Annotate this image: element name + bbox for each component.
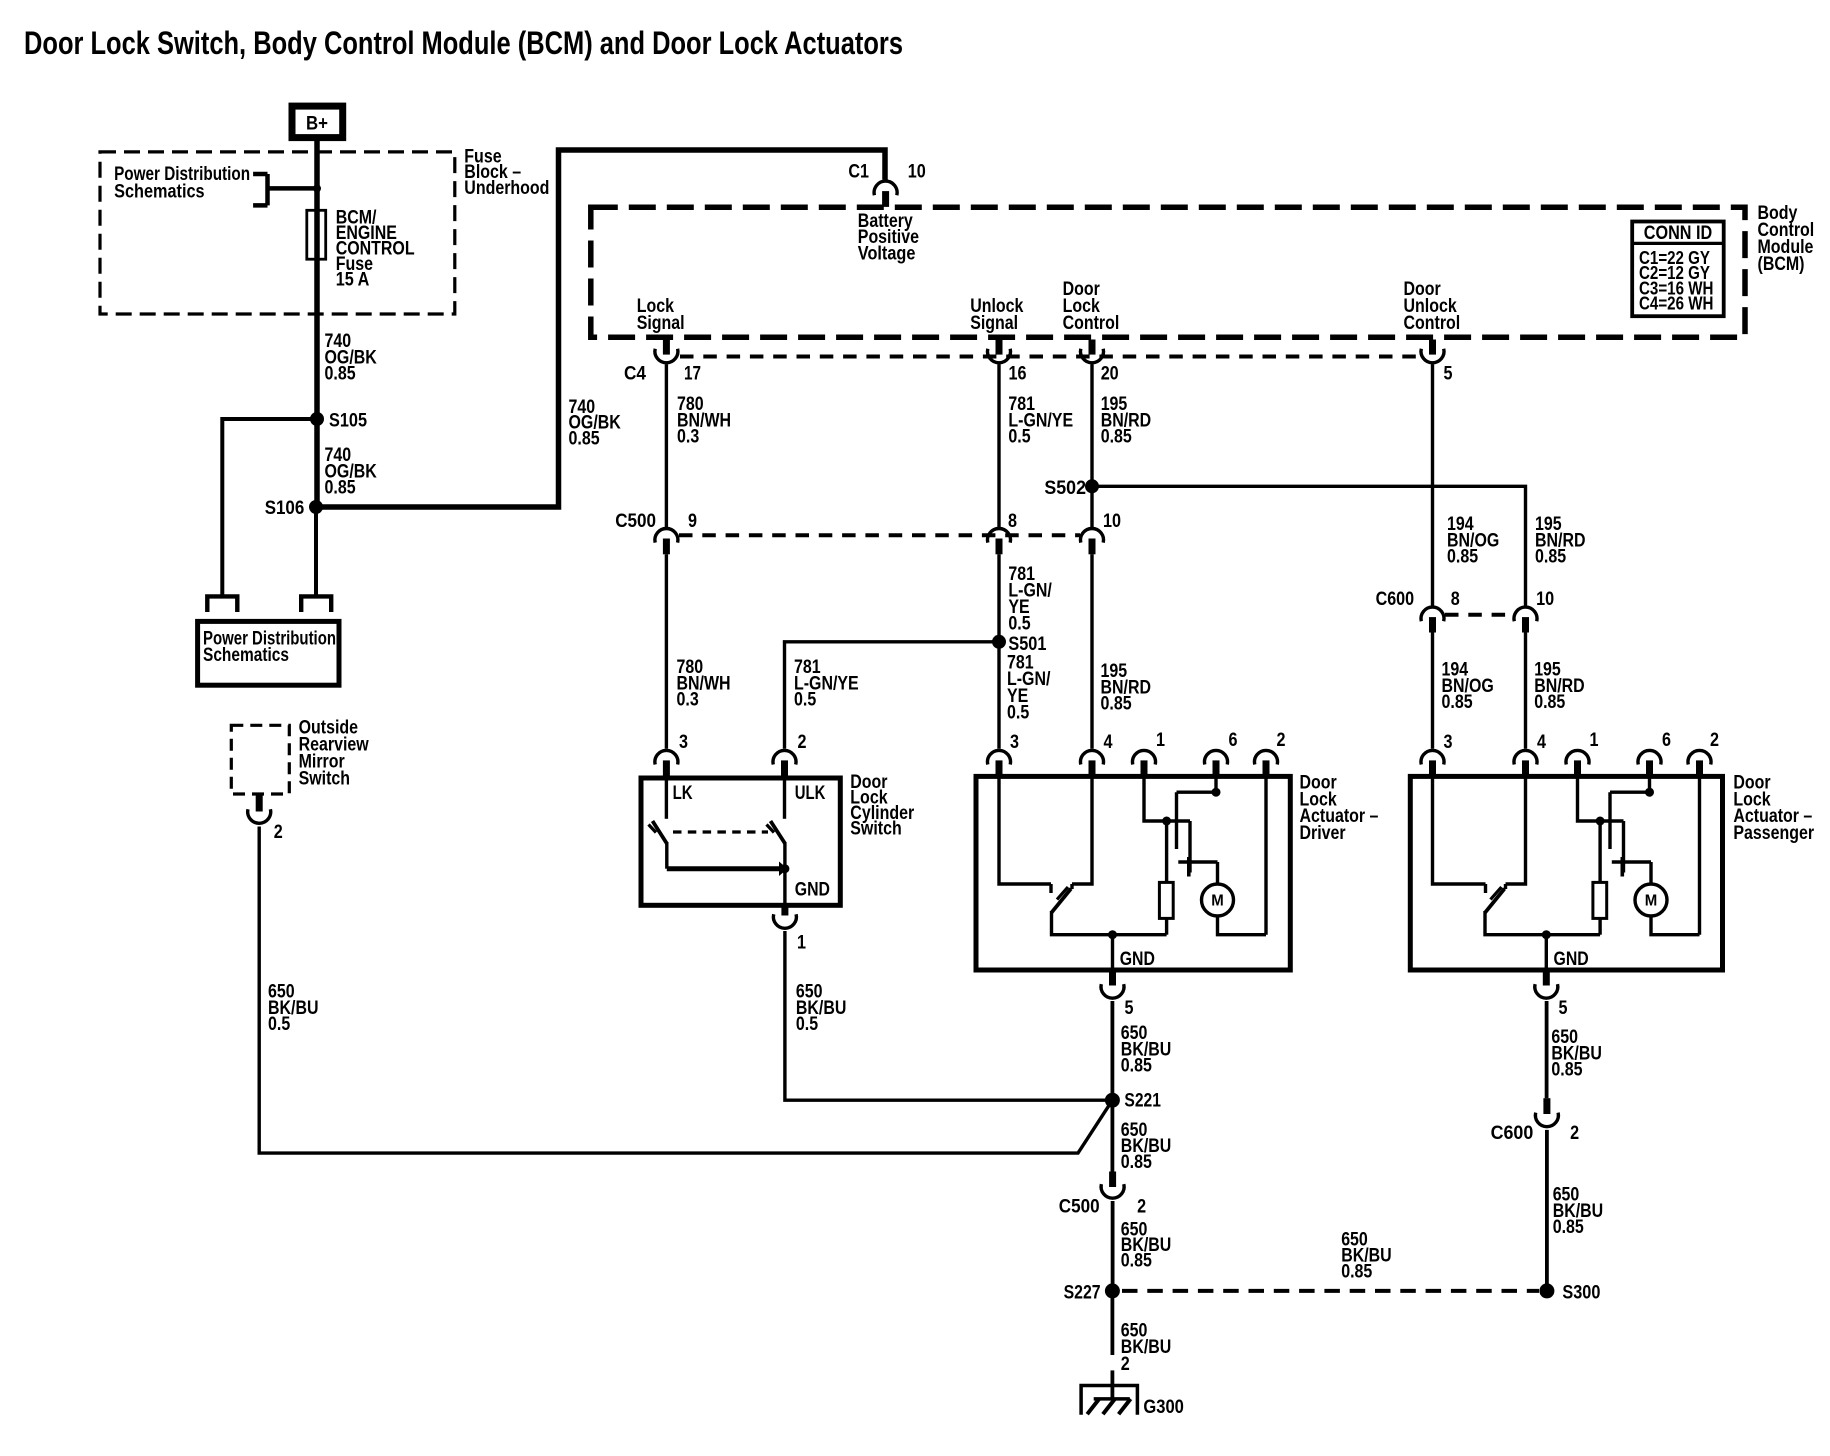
connector C1 pin 10 at BCM (874, 181, 897, 195)
svg-text:8: 8 (1008, 511, 1017, 532)
svg-text:Voltage: Voltage (858, 243, 916, 264)
wire: door unlock control BCM pin5 to C600 pin 8 (1431, 364, 1434, 605)
svg-text:0.85: 0.85 (1121, 1056, 1152, 1077)
wire: LK blade to common bar (665, 842, 668, 869)
connector C600 pin 10 (1514, 607, 1537, 621)
battery positive terminal B+ (292, 106, 343, 138)
connector: mirror switch pin 2 (256, 794, 263, 812)
svg-text:20: 20 (1101, 364, 1119, 385)
connector C500 pin 2 (1109, 1172, 1116, 1188)
svg-text:Passenger: Passenger (1733, 823, 1814, 844)
svg-text:ULK: ULK (795, 783, 826, 804)
wire: lock signal C500-9 to cylinder switch LK pin 3 (665, 554, 668, 749)
svg-text:Schematics: Schematics (114, 182, 205, 203)
passenger actuator: motor to pin 2 (1651, 776, 1700, 934)
connector C4 pin 16 (unlock signal) (996, 340, 1003, 355)
svg-text:3: 3 (1010, 732, 1019, 753)
svg-text:Control: Control (1063, 313, 1120, 334)
passenger actuator: ground junction dot (1542, 930, 1551, 939)
svg-text:C600: C600 (1376, 589, 1415, 610)
svg-text:GND: GND (795, 880, 830, 901)
svg-text:5: 5 (1559, 998, 1568, 1019)
fuse block underhood dashed box (100, 152, 455, 314)
svg-text:1: 1 (797, 933, 806, 954)
terminal fork at power distribution (left) (207, 596, 237, 612)
wire: driver actuator ground to S221 (1111, 1001, 1115, 1100)
junction dot on B+ feed at bracket (313, 184, 321, 192)
svg-text:4: 4 (1104, 732, 1113, 753)
connector C500 dashed gang line (679, 533, 1080, 537)
wire: unlock signal BCM pin16 to C500 pin 8 (997, 364, 1000, 527)
svg-text:0.85: 0.85 (1553, 1217, 1584, 1238)
connector: passenger actuator pin 6 (1638, 750, 1661, 764)
splice S105 (310, 412, 324, 426)
svg-text:C500: C500 (1059, 1197, 1100, 1218)
svg-text:0.85: 0.85 (325, 364, 356, 385)
svg-text:1: 1 (1590, 730, 1599, 751)
wire: C600-10 to actuator passenger pin 4 (1524, 633, 1527, 749)
wire: S227 to S300 (dashed) (1122, 1289, 1539, 1293)
svg-text:C4: C4 (624, 364, 646, 385)
svg-text:15 A: 15 A (336, 270, 370, 291)
splice S227 (1105, 1283, 1120, 1298)
driver actuator: pin 6 lead (1214, 776, 1217, 792)
motor M (driver) (1202, 884, 1234, 916)
connector: driver actuator GND pin 5 (1109, 970, 1116, 986)
connector C500 pin 8 (988, 528, 1011, 542)
wire: S105 branch to power distribution schematics (222, 419, 317, 596)
svg-text:Schematics: Schematics (203, 645, 289, 666)
svg-text:0.85: 0.85 (1341, 1261, 1372, 1282)
splice S300 (1539, 1283, 1554, 1298)
wire: unlock signal C500-8 to actuator driver pin 3 via S501 (997, 554, 1000, 749)
svg-text:GND: GND (1120, 949, 1155, 970)
svg-text:0.5: 0.5 (1008, 614, 1031, 635)
svg-text:S106: S106 (265, 498, 305, 519)
connector C600 pin 8 (1421, 607, 1444, 621)
ULK switch blade (771, 821, 786, 844)
wire: switch common bar to GND (667, 866, 779, 871)
svg-text:0.85: 0.85 (1535, 547, 1566, 568)
door lock actuator passenger box (1410, 776, 1722, 970)
svg-text:S227: S227 (1064, 1282, 1101, 1303)
connector: driver actuator pin 4 (1081, 750, 1104, 764)
svg-text:0.3: 0.3 (677, 427, 699, 448)
svg-text:2: 2 (274, 822, 283, 843)
driver actuator: blade to ground bar (1052, 911, 1167, 935)
svg-text:10: 10 (908, 162, 926, 183)
junction dot at GND bar (780, 864, 789, 873)
svg-text:Underhood: Underhood (464, 178, 549, 199)
svg-text:16: 16 (1009, 364, 1027, 385)
connector C4 dashed gang line (680, 355, 1420, 359)
wire: ULK/GND vertical (783, 842, 786, 906)
svg-text:3: 3 (679, 732, 688, 753)
passenger actuator: blade to ground bar (1485, 911, 1600, 935)
wire: S227 to ground G300 (1111, 1291, 1115, 1355)
connector: passenger actuator pin 2 (1688, 750, 1711, 764)
svg-text:0.5: 0.5 (268, 1014, 291, 1035)
wire: C600-2 to S300 (1545, 1130, 1549, 1291)
svg-text:G300: G300 (1143, 1397, 1184, 1418)
terminal fork at power distribution (right) (301, 596, 331, 612)
svg-text:LK: LK (673, 783, 693, 804)
svg-text:Signal: Signal (637, 313, 685, 334)
connector: passenger actuator pin 4 (1514, 750, 1537, 764)
splice S221 (1105, 1093, 1120, 1108)
off-page bracket to power distribution schematics (253, 174, 317, 205)
connector: passenger actuator GND pin 5 (1543, 970, 1550, 986)
connector C4 pin 20 (door lock control) (1089, 340, 1096, 355)
wire: ULK contact lead (783, 778, 786, 819)
splice S501 (992, 635, 1006, 649)
wire: C500-2 to S227 (1111, 1201, 1115, 1291)
connector C600 pin 2 (1543, 1098, 1550, 1114)
splice S502 (1085, 479, 1099, 493)
svg-text:17: 17 (684, 364, 701, 385)
svg-text:0.85: 0.85 (1551, 1060, 1582, 1081)
wire: S501 branch to cylinder switch ULK pin 2 (785, 642, 1000, 749)
svg-text:C4=26 WH: C4=26 WH (1639, 294, 1713, 314)
svg-text:2: 2 (1137, 1197, 1146, 1218)
svg-text:0.85: 0.85 (1442, 692, 1473, 713)
wire: lock signal BCM pin17 to C500 pin 9 (665, 364, 668, 527)
passenger actuator: contact plate (1621, 857, 1625, 877)
svg-text:S221: S221 (1124, 1090, 1161, 1111)
LK switch blade (653, 821, 667, 844)
svg-text:M: M (1211, 893, 1224, 910)
outside rearview mirror switch dashed box (231, 725, 289, 794)
wire: B+ feed down through fuse to S106 (314, 141, 320, 509)
passenger actuator: pin 4 lead to unlock contact (1506, 776, 1526, 884)
driver actuator: switch blade (1051, 889, 1071, 913)
wire: LK contact lead (665, 778, 668, 819)
connector C500 pin 10 (1081, 528, 1104, 542)
connector: cylinder switch GND pin 1 (781, 906, 788, 916)
svg-text:Switch: Switch (299, 768, 350, 789)
driver actuator: pin 1 lead (1144, 776, 1190, 821)
svg-text:GND: GND (1554, 949, 1589, 970)
wire: door lock control BCM pin20 to C500 pin 10 (1090, 364, 1093, 527)
svg-text:5: 5 (1444, 364, 1453, 385)
passenger actuator: resistor (1598, 821, 1601, 882)
switch gang dashed link (673, 830, 768, 833)
svg-text:6: 6 (1229, 730, 1238, 751)
wire: ground lead (1111, 1370, 1115, 1399)
passenger actuator: switch blade (1485, 889, 1505, 913)
svg-text:10: 10 (1103, 511, 1121, 532)
connector C4 pin 17 (lock signal) (663, 340, 670, 355)
svg-text:0.5: 0.5 (794, 690, 817, 711)
wire: cylinder switch GND to S221 (785, 931, 1113, 1100)
connector: driver actuator pin 2 (1255, 750, 1278, 764)
wire: C600-8 to actuator passenger pin 3 (1431, 633, 1434, 749)
svg-text:1: 1 (1156, 730, 1165, 751)
passenger actuator: pin 6 lead (1648, 776, 1651, 792)
svg-text:0.5: 0.5 (796, 1014, 819, 1035)
svg-text:Switch: Switch (850, 819, 901, 840)
power distribution schematics box (198, 621, 339, 685)
svg-text:0.85: 0.85 (1121, 1152, 1152, 1173)
connector: driver actuator pin 3 (988, 750, 1011, 764)
svg-text:2: 2 (1121, 1354, 1130, 1375)
svg-text:Door Lock Switch, Body Control: Door Lock Switch, Body Control Module (B… (24, 25, 903, 61)
svg-text:C500: C500 (615, 511, 656, 532)
svg-text:0.85: 0.85 (1101, 694, 1132, 715)
driver actuator: contact plate (1187, 857, 1191, 877)
fuse F1 BCM/ENGINE CONTROL 15 A (307, 210, 326, 259)
connector: passenger actuator pin 3 (1421, 750, 1444, 764)
svg-text:10: 10 (1536, 589, 1554, 610)
svg-text:2: 2 (1570, 1123, 1579, 1144)
svg-text:Control: Control (1404, 313, 1461, 334)
driver actuator: motor to pin 2 (1218, 776, 1267, 934)
svg-text:0.5: 0.5 (1008, 427, 1031, 448)
svg-text:0.5: 0.5 (1007, 702, 1030, 723)
motor M (passenger) (1635, 884, 1667, 916)
connector C4 pin 5 (door unlock control) (1429, 340, 1436, 355)
driver actuator: ground junction dot (1108, 930, 1117, 939)
wire: S502 branch to C600 pin 10 (1092, 486, 1526, 605)
passenger actuator: ground lead out (1545, 935, 1548, 970)
svg-text:0.85: 0.85 (1447, 547, 1478, 568)
svg-text:B+: B+ (306, 113, 328, 135)
ground G300 (1081, 1386, 1137, 1415)
door lock actuator driver box (976, 776, 1290, 970)
wire: S221 to C500 pin 2 (1111, 1100, 1115, 1171)
svg-text:(BCM): (BCM) (1758, 254, 1805, 275)
driver actuator: ground lead out (1111, 935, 1114, 970)
svg-text:2: 2 (798, 732, 807, 753)
wire: S106 feed right and up to C1 (battery positive voltage) (316, 150, 885, 507)
svg-text:S502: S502 (1044, 478, 1086, 499)
splice S106 (309, 500, 323, 514)
svg-text:2: 2 (1277, 730, 1286, 751)
wire: mirror switch ground to S221 (259, 827, 1112, 1154)
svg-text:S300: S300 (1562, 1282, 1600, 1303)
passenger actuator: motor feed bar (1612, 862, 1651, 885)
driver actuator: pin 3 lead to lock contact (999, 776, 1051, 884)
door lock cylinder switch box (641, 778, 840, 905)
connector C600 dashed gang line (1445, 613, 1513, 617)
svg-text:M: M (1645, 893, 1658, 910)
svg-text:0.3: 0.3 (677, 690, 699, 711)
svg-text:3: 3 (1444, 732, 1453, 753)
driver actuator: motor feed bar (1178, 862, 1217, 885)
svg-text:9: 9 (688, 511, 697, 532)
svg-text:4: 4 (1537, 732, 1546, 753)
svg-text:2: 2 (1710, 730, 1719, 751)
svg-text:Signal: Signal (970, 313, 1018, 334)
svg-text:0.85: 0.85 (569, 428, 600, 449)
svg-text:C1: C1 (848, 162, 869, 183)
driver actuator: resistor (1165, 821, 1168, 882)
passenger actuator: pin 1 lead (1578, 776, 1624, 821)
svg-text:C600: C600 (1491, 1123, 1534, 1144)
passenger actuator: pin 3 lead to lock contact (1433, 776, 1486, 884)
connector: cylinder switch pin 2 (773, 750, 796, 764)
connector: driver actuator pin 1 (1133, 750, 1156, 764)
svg-text:8: 8 (1451, 589, 1460, 610)
wire: S106 branch to power distribution schematics (314, 507, 318, 596)
wire: door lock control C500-10 to actuator driver pin 4 (1090, 554, 1093, 749)
driver actuator: pin 4 lead to unlock contact (1072, 776, 1092, 884)
svg-text:0.85: 0.85 (325, 478, 356, 499)
svg-text:CONN ID: CONN ID (1644, 223, 1713, 244)
connector C500 pin 9 (655, 528, 678, 542)
svg-text:S105: S105 (329, 411, 367, 432)
body control module BCM dashed box (591, 207, 1745, 337)
svg-text:0.85: 0.85 (1534, 692, 1565, 713)
svg-text:5: 5 (1125, 998, 1134, 1019)
wire: passenger actuator ground to C600 pin 2 (1545, 1001, 1549, 1098)
svg-text:Driver: Driver (1300, 823, 1347, 844)
svg-text:0.85: 0.85 (1121, 1251, 1152, 1272)
svg-text:0.85: 0.85 (1101, 427, 1132, 448)
connector: cylinder switch pin 3 (655, 750, 678, 764)
connector: passenger actuator pin 1 (1566, 750, 1589, 764)
svg-text:6: 6 (1662, 730, 1671, 751)
CONN ID table (1632, 222, 1724, 317)
connector: driver actuator pin 6 (1205, 750, 1228, 764)
